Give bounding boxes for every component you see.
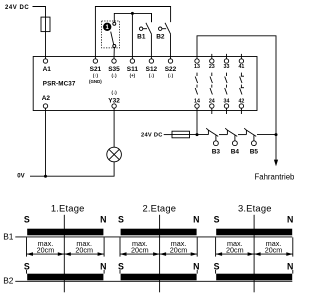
svg-text:S21: S21 <box>90 66 102 73</box>
svg-text:S: S <box>118 215 124 225</box>
wire F2 to B3 <box>190 134 209 136</box>
0V rail <box>30 162 114 176</box>
svg-text:(↓): (↓) <box>168 73 174 78</box>
terminal A1 <box>43 59 47 63</box>
dimension centre arrowheads etage 1 <box>58 252 65 256</box>
svg-text:B2: B2 <box>156 34 165 41</box>
reset bus wire S1 to B1 <box>114 13 151 22</box>
svg-text:S: S <box>24 215 30 225</box>
svg-text:(↓): (↓) <box>112 90 118 95</box>
svg-text:20cm: 20cm <box>131 245 149 254</box>
svg-text:S: S <box>214 262 220 272</box>
wire 24VDC to fuse F2 <box>164 134 172 136</box>
svg-text:B1: B1 <box>3 231 14 241</box>
svg-text:24V DC: 24V DC <box>5 5 29 11</box>
terminal 13 <box>195 59 199 63</box>
svg-text:A1: A1 <box>43 66 52 73</box>
wire Y32 to lamp H1 <box>113 108 115 147</box>
svg-text:20cm: 20cm <box>170 245 188 254</box>
magnetic switch B2 <box>159 23 171 35</box>
terminal Y32 <box>112 104 116 108</box>
wire 13 feed bracket <box>197 36 276 160</box>
indicator lamp H1 <box>107 147 122 162</box>
magnet bar B2 etage 1 <box>27 274 103 281</box>
relay U1 PSR-MC37 body <box>33 57 257 111</box>
svg-text:PSR-MC37: PSR-MC37 <box>43 81 76 88</box>
wire 14 drop <box>196 108 198 135</box>
dimension max.20cm etage 1 left <box>27 239 65 256</box>
svg-text:3.Etage: 3.Etage <box>238 203 272 214</box>
terminal 33 <box>226 54 228 59</box>
fuse F2 <box>172 134 190 136</box>
svg-text:S: S <box>214 215 220 225</box>
magnet bar B1 etage 2 <box>121 229 197 236</box>
NC contact 41-42 <box>240 73 244 95</box>
svg-text:B4: B4 <box>231 148 240 155</box>
svg-text:20cm: 20cm <box>75 245 93 254</box>
dimension max.20cm etage 3 right <box>254 239 293 256</box>
reset switch S1 contact <box>113 22 116 25</box>
magnetic switch B1 <box>139 13 151 34</box>
svg-text:N: N <box>193 215 199 225</box>
terminal 23 <box>211 54 213 59</box>
svg-text:20cm: 20cm <box>265 245 283 254</box>
svg-text:(↓): (↓) <box>111 73 117 78</box>
magnet bar B1 etage 3 <box>216 229 292 236</box>
dimension extension lines etage 1 <box>27 237 105 273</box>
magnet bar B2 etage 3 <box>216 274 292 281</box>
svg-text:S35: S35 <box>108 66 120 73</box>
wire A2 to 0V rail <box>45 108 47 176</box>
centre line etage 1 <box>63 215 65 292</box>
wire B5 to output riser <box>257 134 276 136</box>
svg-text:Fahrantrieb: Fahrantrieb <box>255 172 296 181</box>
terminal S21 <box>93 59 97 63</box>
magnet bar B2 etage 2 <box>121 274 197 281</box>
svg-text:(↑): (↑) <box>93 73 99 78</box>
magnet bar B1 etage 1 <box>27 229 103 236</box>
node output junction <box>275 133 278 136</box>
terminal S12 <box>149 59 153 63</box>
wire B3 to B4 <box>219 134 227 136</box>
wire S1 to terminal S35 <box>113 47 115 59</box>
svg-text:33: 33 <box>224 64 230 70</box>
reset switch S1 dashed enclosure <box>102 21 120 48</box>
svg-text:23: 23 <box>209 64 215 70</box>
fuse F1 <box>45 17 47 32</box>
contact 13-14 <box>195 73 197 95</box>
svg-text:S: S <box>118 262 124 272</box>
wire F1 to terminal A1 <box>45 32 47 59</box>
svg-text:A2: A2 <box>42 95 51 102</box>
dimension max.20cm etage 2 right <box>160 239 198 256</box>
svg-text:N: N <box>100 262 106 272</box>
svg-text:B3: B3 <box>212 148 221 155</box>
magnetic switch B4 <box>225 128 237 145</box>
wire B1 to terminal S12 <box>150 34 152 59</box>
contact 33-34 <box>225 73 227 95</box>
svg-text:S11: S11 <box>127 66 139 73</box>
terminal A2 <box>43 104 47 108</box>
svg-text:2.Etage: 2.Etage <box>142 203 176 214</box>
supply bus wire S21 to B2 <box>95 7 170 60</box>
terminal 41 <box>240 54 242 59</box>
svg-text:41: 41 <box>238 64 244 70</box>
terminal S35 <box>112 59 116 63</box>
svg-text:B2: B2 <box>3 275 14 285</box>
wire B4 to B5 <box>238 134 246 136</box>
dimension extension lines etage 3 <box>216 237 293 273</box>
magnetic switch B5 <box>244 128 256 145</box>
svg-text:N: N <box>193 262 199 272</box>
contact 23-24 <box>210 73 212 95</box>
svg-text:N: N <box>100 215 106 225</box>
wire S11 riser <box>131 13 133 59</box>
svg-text:24V DC: 24V DC <box>141 132 163 138</box>
callout marker 1 <box>103 23 111 31</box>
dimension centre arrowheads etage 3 <box>248 252 255 256</box>
svg-text:(+): (+) <box>130 73 136 78</box>
node S11 junction <box>131 12 134 15</box>
svg-text:1.Etage: 1.Etage <box>51 203 85 214</box>
centre line etage 2 <box>159 215 161 292</box>
svg-text:S: S <box>24 262 30 272</box>
wire 24VDC supply to fuse F1 <box>33 7 46 18</box>
terminal S11 <box>130 59 134 63</box>
centre line etage 3 <box>253 215 255 292</box>
svg-text:B5: B5 <box>250 148 259 155</box>
svg-text:20cm: 20cm <box>37 245 55 254</box>
dimension extension lines etage 2 <box>120 237 197 273</box>
svg-text:(GND): (GND) <box>89 79 102 84</box>
svg-text:0V: 0V <box>17 173 24 179</box>
B2 track line <box>15 280 292 282</box>
node A2/0V junction <box>44 175 47 178</box>
svg-text:N: N <box>287 215 293 225</box>
svg-text:13: 13 <box>194 64 200 70</box>
wire B2 to terminal S22 <box>170 34 172 59</box>
B1 track line <box>15 236 292 238</box>
svg-text:Y32: Y32 <box>108 97 120 104</box>
svg-text:S22: S22 <box>165 66 177 73</box>
dimension max.20cm etage 2 left <box>120 239 160 256</box>
magnetic switch B3 <box>206 128 218 145</box>
dimension max.20cm etage 1 right <box>64 239 104 256</box>
svg-text:B1: B1 <box>137 34 146 41</box>
node 14 junction <box>196 133 199 136</box>
svg-text:(↓): (↓) <box>149 73 155 78</box>
svg-text:S12: S12 <box>146 66 158 73</box>
dimension max.20cm etage 3 left <box>216 239 255 256</box>
terminal S22 <box>168 59 172 63</box>
svg-text:20cm: 20cm <box>226 245 244 254</box>
svg-text:N: N <box>287 262 293 272</box>
arrow to Fahrantrieb <box>274 160 278 167</box>
dimension centre arrowheads etage 2 <box>153 252 160 256</box>
